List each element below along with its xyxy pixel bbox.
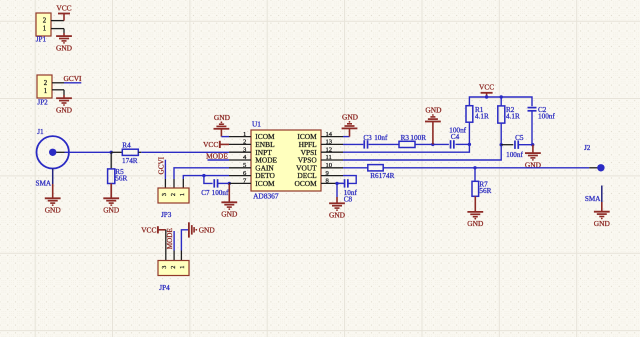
wire JP3 pin1 to DETO: [183, 176, 229, 188]
node VCC rail / R2: [500, 95, 503, 98]
svg-text:U1: U1: [252, 119, 261, 128]
svg-text:10: 10: [326, 162, 333, 169]
svg-text:2: 2: [44, 80, 48, 87]
power VCC (JP4): [141, 225, 166, 234]
net label MODE (JP4, vertical): [166, 228, 174, 250]
svg-text:13: 13: [326, 139, 333, 146]
svg-text:2: 2: [170, 266, 177, 269]
wire rail to R2: [500, 97, 502, 106]
wire R3 to C4: [415, 143, 449, 145]
resistor R1: [466, 106, 489, 123]
svg-text:JP3: JP3: [161, 211, 172, 219]
wire HPFL to C3: [343, 143, 363, 145]
svg-text:1: 1: [179, 193, 186, 196]
node C2/C5/GND: [531, 143, 534, 146]
ground GND (J1): [45, 184, 62, 215]
ground GND (R7): [467, 196, 484, 228]
svg-text:MODE: MODE: [166, 228, 174, 250]
wire C7 tap down: [204, 176, 213, 184]
wire J1 to R5 node: [65, 151, 112, 153]
capacitor C7: [201, 179, 229, 197]
svg-text:GND: GND: [467, 219, 484, 228]
svg-text:SMA: SMA: [36, 180, 52, 188]
svg-text:OCOM: OCOM: [295, 179, 318, 188]
wire OCOM gnd drop: [336, 183, 338, 197]
net label GCVI (JP3, vertical): [157, 156, 165, 174]
svg-text:56R: 56R: [115, 174, 127, 182]
ground GND (J2): [594, 202, 611, 228]
svg-text:1: 1: [179, 266, 186, 269]
J1 pin segment: [56, 151, 64, 153]
J2 pin segment: [589, 167, 601, 169]
node R7 tap: [473, 166, 476, 169]
node GND tap (R3/C4): [431, 143, 434, 146]
wire pin14 to GND: [343, 136, 350, 138]
svg-text:1: 1: [44, 88, 47, 95]
node OCOM/C8/GND: [335, 182, 338, 185]
svg-text:56R: 56R: [479, 187, 491, 195]
svg-text:3: 3: [161, 193, 168, 196]
svg-text:10nf: 10nf: [374, 134, 388, 142]
connector JP3: [158, 188, 189, 219]
J1 SMA label: [36, 180, 52, 188]
svg-text:VCC: VCC: [141, 225, 156, 234]
svg-text:C7: C7: [201, 189, 210, 197]
svg-text:GCVI: GCVI: [157, 156, 165, 174]
wire JP4 pin3: [165, 230, 167, 261]
capacitor C3: [363, 134, 388, 148]
wire C7 to ICOM node: [218, 182, 230, 184]
svg-text:VCC: VCC: [203, 140, 218, 149]
resistor R5: [108, 168, 128, 184]
svg-text:100R: 100R: [410, 134, 426, 142]
resistor R2: [498, 106, 520, 123]
ground GND (C8): [329, 197, 346, 220]
connector J1 (SMA): [37, 128, 69, 169]
capacitor C4: [449, 126, 466, 148]
svg-text:C8: C8: [344, 196, 353, 204]
ground GND (JP4, sideways): [189, 222, 215, 237]
svg-text:C5: C5: [515, 134, 524, 142]
wire VPSO riser: [343, 145, 501, 160]
capacitor C5: [506, 134, 524, 159]
svg-text:C3: C3: [363, 134, 372, 142]
connector JP2: [37, 75, 52, 106]
wire C2 to GND node: [531, 111, 533, 145]
svg-text:GND: GND: [221, 210, 238, 219]
svg-text:GND: GND: [594, 219, 611, 228]
wire GND to pin1: [221, 136, 229, 138]
ground GND (HPFL tap): [425, 106, 442, 145]
JP1 pin 2 wire: [51, 20, 64, 22]
svg-text:R3: R3: [401, 134, 410, 142]
node ICOM/C7/GND: [228, 182, 231, 185]
ground GND (pin1 ICOM): [214, 113, 231, 137]
node R5 tap: [110, 151, 113, 154]
connector JP4: [158, 261, 189, 292]
svg-text:3: 3: [161, 266, 168, 269]
node R2/C5/VPSO: [500, 143, 503, 146]
wire JP3 pin2 to GAIN: [174, 168, 229, 188]
JP1 pin 1 wire: [51, 29, 64, 33]
wire C8 to OCOM node: [337, 182, 345, 184]
connector JP1: [36, 13, 51, 44]
svg-text:1: 1: [243, 131, 246, 138]
svg-text:JP4: JP4: [159, 284, 170, 292]
JP2 pin 2 wire: [52, 82, 64, 84]
wire R2 to C5 node: [500, 123, 502, 145]
wire JP3 pin3 GCVI: [164, 160, 166, 188]
wire JP4 pin1 to GND: [181, 230, 189, 261]
wire node to R5: [110, 152, 112, 169]
svg-text:R4: R4: [122, 141, 131, 149]
wire VCC rail: [469, 97, 532, 106]
wire MODE: [208, 159, 230, 161]
svg-text:VCC: VCC: [479, 83, 494, 92]
svg-text:4.1R: 4.1R: [506, 112, 520, 120]
wire C3 to R3: [369, 143, 399, 145]
wire R7 riser: [474, 168, 476, 182]
svg-text:2: 2: [243, 139, 246, 146]
op-amp U1 AD8367 body: [251, 119, 321, 200]
svg-text:GND: GND: [103, 206, 120, 215]
svg-text:ICOM: ICOM: [255, 179, 275, 188]
svg-text:174R: 174R: [379, 172, 395, 180]
wire DECL loop: [343, 176, 356, 184]
J2 shield stub: [601, 186, 603, 203]
ground GND (JP2): [56, 95, 73, 114]
J2 SMA label: [585, 195, 601, 203]
capacitor C8: [344, 179, 358, 203]
svg-text:GND: GND: [425, 106, 442, 115]
svg-text:100nf: 100nf: [538, 112, 555, 120]
svg-text:C4: C4: [451, 133, 460, 141]
svg-text:GND: GND: [329, 211, 346, 220]
ground GND (R5): [103, 184, 120, 215]
svg-text:GCVI: GCVI: [63, 74, 82, 83]
svg-text:12: 12: [326, 146, 333, 153]
svg-text:100nf: 100nf: [506, 151, 523, 159]
svg-text:VCC: VCC: [56, 3, 71, 12]
ground GND (C7): [221, 183, 238, 218]
net label GCVI (JP2): [63, 74, 82, 83]
wire node to R4: [111, 151, 122, 153]
resistor R7: [472, 180, 492, 196]
svg-text:11: 11: [326, 154, 332, 161]
ground GND (C2/C5): [525, 145, 542, 170]
JP2 pin 1 wire: [52, 90, 64, 95]
resistor R4: [122, 141, 138, 165]
svg-text:GND: GND: [56, 105, 73, 114]
J1 shield stub: [52, 169, 54, 185]
svg-text:JP1: JP1: [36, 36, 47, 44]
svg-text:100nf: 100nf: [212, 189, 229, 197]
svg-text:GND: GND: [342, 113, 359, 122]
power VCC (ENBL): [203, 140, 229, 149]
wire GCVI: [64, 82, 81, 84]
svg-text:GND: GND: [56, 43, 73, 52]
svg-text:1: 1: [43, 26, 46, 33]
power VCC (JP1): [56, 3, 71, 20]
svg-text:SMA: SMA: [585, 195, 601, 203]
svg-text:GND: GND: [199, 225, 216, 234]
resistor R3: [399, 134, 426, 148]
svg-text:R6: R6: [370, 172, 379, 180]
wire C4 to R1 node: [456, 143, 470, 145]
svg-text:JP2: JP2: [37, 98, 48, 106]
svg-text:MODE: MODE: [206, 151, 228, 160]
wire R6 to J2: [383, 167, 589, 169]
net label MODE: [206, 151, 228, 160]
connector J2 (SMA): [584, 144, 605, 171]
node R1/C4/VPSI: [468, 143, 471, 146]
node VCC rail / VCC: [485, 95, 488, 98]
svg-text:J1: J1: [37, 128, 44, 136]
wire VOUT to R6: [343, 167, 368, 169]
node C7 tap on DETO: [202, 174, 205, 177]
wire VPSI riser: [343, 122, 469, 152]
svg-text:GND: GND: [45, 206, 62, 215]
wire JP4 pin2: [173, 231, 175, 261]
svg-text:AD8367: AD8367: [253, 192, 279, 201]
ground GND (pin14): [342, 113, 359, 137]
capacitor C2: [528, 106, 556, 121]
svg-text:2: 2: [170, 193, 177, 196]
wire R4 to INPT: [138, 151, 229, 153]
svg-text:J2: J2: [584, 144, 591, 152]
wire node to C5: [501, 144, 513, 146]
U1 pins 1-14: [229, 131, 343, 185]
wire C5 to GND node: [518, 144, 532, 146]
svg-text:14: 14: [326, 131, 333, 138]
resistor R6: [368, 165, 395, 180]
power VCC (rail): [479, 83, 494, 97]
svg-text:GND: GND: [214, 113, 231, 122]
svg-text:4.1R: 4.1R: [475, 112, 489, 120]
svg-text:2: 2: [43, 18, 47, 25]
ground GND (JP1): [56, 33, 73, 52]
svg-text:174R: 174R: [122, 157, 138, 165]
